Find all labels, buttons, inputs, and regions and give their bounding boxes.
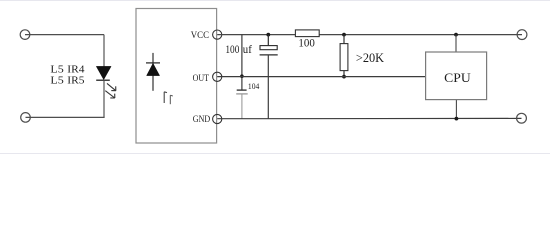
svg-text:100: 100	[298, 35, 314, 49]
LED D1 cathode bar	[96, 79, 110, 81]
node junction dot CPU vcc drop	[454, 33, 458, 37]
wire top-left horizontal	[25, 34, 104, 36]
svg-text:GND: GND	[193, 114, 210, 125]
svg-text:>20K: >20K	[356, 51, 384, 65]
svg-text:VCC: VCC	[191, 30, 209, 41]
photodiode U1 cathode bar	[146, 62, 160, 64]
node junction dot C1 on VCC	[266, 33, 270, 37]
wire CPU gnd drop	[455, 100, 457, 119]
terminal top-right	[517, 30, 527, 40]
capacitor C1 upper lead	[267, 35, 269, 46]
svg-text:104: 104	[248, 81, 260, 91]
pin circle VCC	[213, 30, 222, 39]
pin circle OUT	[213, 72, 222, 81]
photodiode U1 vertical lead	[152, 53, 154, 91]
decorative top scan edge	[0, 0, 550, 2]
photodiode U1 incoming light arrow 2	[170, 95, 173, 104]
wire LED anode vertical	[103, 35, 105, 67]
wire CPU vcc drop	[455, 35, 457, 52]
svg-text:OUT: OUT	[193, 73, 210, 84]
LED D1 emission arrow 1	[107, 83, 116, 90]
capacitor C2 plate 1	[237, 89, 247, 91]
node junction dot at OUT crossing	[240, 74, 244, 78]
wire OUT net	[217, 76, 425, 78]
resistor R2 body	[340, 44, 348, 71]
terminal bottom-right	[517, 113, 527, 123]
capacitor C2 plate 2	[236, 93, 248, 95]
svg-text:uf: uf	[243, 44, 252, 56]
decorative bottom scan edge	[0, 153, 550, 155]
LED D1 triangle	[96, 66, 111, 79]
wire VCC net segment pin to resistor	[217, 34, 295, 36]
CPU U2 body	[426, 52, 487, 100]
resistor R1 body	[295, 30, 319, 37]
node junction 104 branch on VCC	[241, 35, 243, 91]
node junction dot R2 bottom on OUT	[342, 75, 346, 79]
terminal bottom-left	[21, 113, 31, 123]
svg-text:CPU: CPU	[444, 70, 471, 85]
svg-text:L5IR5: L5IR5	[50, 75, 84, 86]
wire VCC net segment resistor to terminal	[319, 34, 522, 36]
capacitor C2 lower lead	[241, 94, 243, 119]
svg-text:L5IR4: L5IR4	[50, 64, 84, 75]
photodiode U1 incoming light arrow 1	[164, 92, 167, 103]
node junction dot CPU gnd on GND	[455, 117, 459, 121]
photodiode U1 triangle	[147, 63, 160, 75]
pin circle GND	[213, 114, 222, 123]
svg-text:100: 100	[225, 44, 239, 56]
resistor R2 upper lead	[343, 35, 345, 44]
optocoupler U1 body	[136, 9, 217, 144]
capacitor C1 lower lead	[267, 55, 269, 119]
node junction dot R2 top on VCC	[342, 33, 346, 37]
capacitor C1 positive plate box	[260, 46, 277, 50]
wire GND net	[217, 117, 521, 119]
LED D1 emission arrow 2	[105, 91, 115, 98]
capacitor C1 negative plate	[260, 54, 278, 56]
terminal top-left	[20, 30, 30, 40]
resistor R2 lower lead	[343, 71, 345, 77]
wire LED cathode vertical	[103, 80, 105, 117]
wire bottom-left horizontal	[26, 116, 105, 118]
